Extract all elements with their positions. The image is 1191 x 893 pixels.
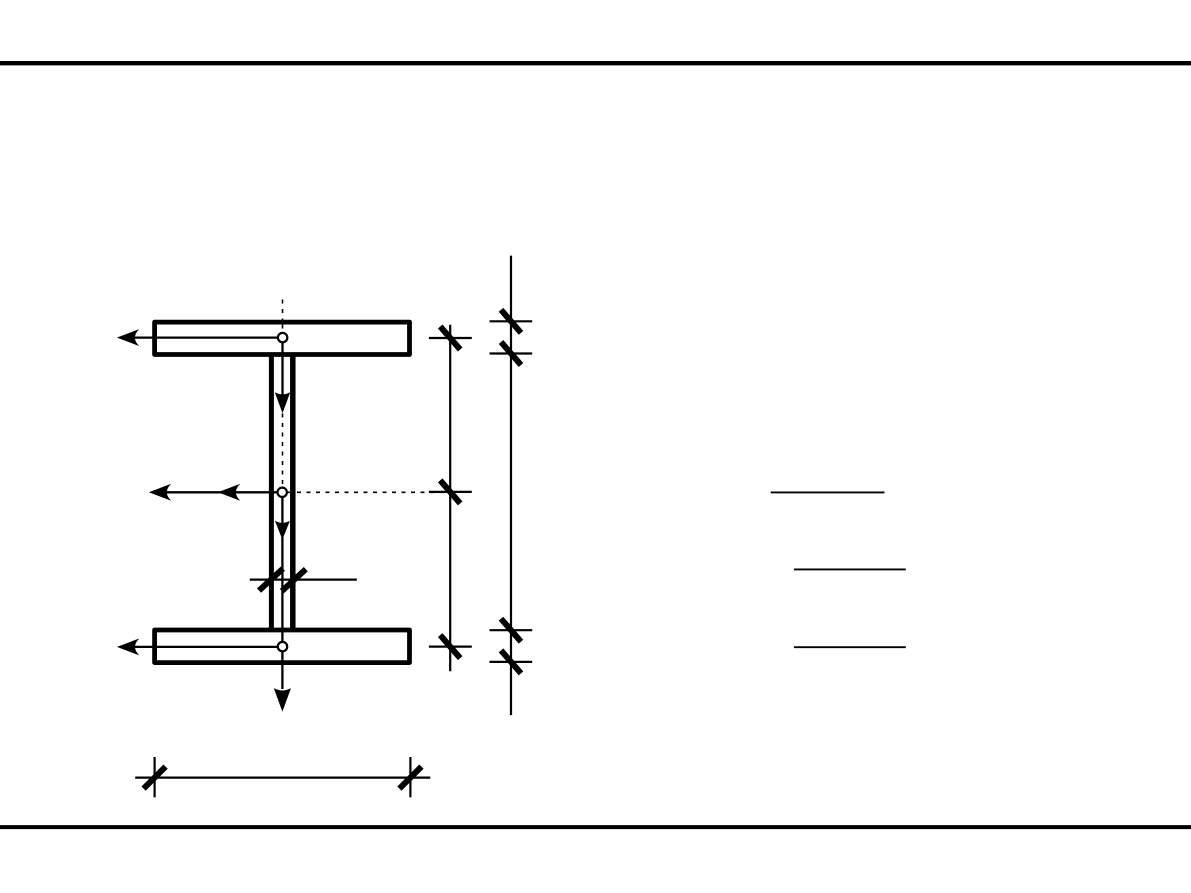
shear flow arrow in bottom flange: head xyxy=(117,638,139,655)
equation fraction bar 3 xyxy=(794,646,906,648)
shear force arrow in upper web: head xyxy=(275,392,290,413)
equation fraction bar 2 xyxy=(794,568,906,570)
equation fraction bar 1 xyxy=(771,491,885,493)
mid web arrow head xyxy=(275,521,290,540)
flange width tick left xyxy=(144,767,166,789)
shear flow arrow in top flange: shaft xyxy=(134,336,278,338)
shear flow arrow in top flange: head xyxy=(117,329,139,346)
node circle top flange centroid xyxy=(278,333,287,342)
inner dim tick middle xyxy=(440,480,460,503)
flange width dimension line xyxy=(135,776,430,778)
top flange outline xyxy=(155,322,410,354)
web thickness tick right xyxy=(282,569,306,591)
flange width tick right xyxy=(399,767,421,789)
web thickness dimension line xyxy=(250,578,357,580)
resultant arrow head outer xyxy=(149,484,171,501)
dashed horizontal line from shear center to dimension line xyxy=(288,491,447,493)
bottom flange outline xyxy=(155,630,410,663)
outer dim tick flange bottom xyxy=(501,342,521,365)
inner dim crossbar top xyxy=(429,337,472,339)
node circle shear centre xyxy=(278,488,287,497)
lower web force line down to bottom arrow xyxy=(281,496,283,689)
outer dim tick lower flange bottom xyxy=(501,650,521,673)
outer dim crossbar flange top xyxy=(490,320,533,322)
page top rule xyxy=(0,61,1191,65)
web thickness tick left xyxy=(259,569,283,591)
page bottom rule xyxy=(0,825,1191,829)
inner dimension line (flange centre to centre) xyxy=(449,325,451,672)
inner dim crossbar bottom xyxy=(429,645,472,647)
inner dim tick bottom xyxy=(440,635,460,658)
web left wall xyxy=(269,353,274,631)
outer dim tick flange top xyxy=(501,310,521,333)
outer dim crossbar lower flange top xyxy=(490,629,533,631)
outer dim tick lower flange top xyxy=(501,619,521,642)
outer dimension line (overall depth) xyxy=(510,256,512,715)
inner dim crossbar middle xyxy=(429,491,472,493)
flange width extension right xyxy=(409,757,411,797)
shear flow arrow in bottom flange: shaft xyxy=(134,646,278,648)
dashed centerline segment inside top flange (over flange fill) xyxy=(282,325,284,334)
shear force arrow in upper web: shaft xyxy=(281,341,283,396)
bottom force arrow head below flange xyxy=(274,688,291,712)
outer dim crossbar flange bottom xyxy=(490,352,533,354)
dashed vertical centerline of section xyxy=(282,300,284,489)
web right wall xyxy=(290,353,296,631)
resultant shear force arrows at shear centre: shaft xyxy=(166,491,278,493)
flange width extension left xyxy=(154,757,156,797)
node circle bottom flange centroid xyxy=(278,642,287,651)
resultant arrow head inner xyxy=(218,484,240,501)
outer dim crossbar lower flange bottom xyxy=(490,661,533,663)
inner dim tick top xyxy=(440,327,460,350)
